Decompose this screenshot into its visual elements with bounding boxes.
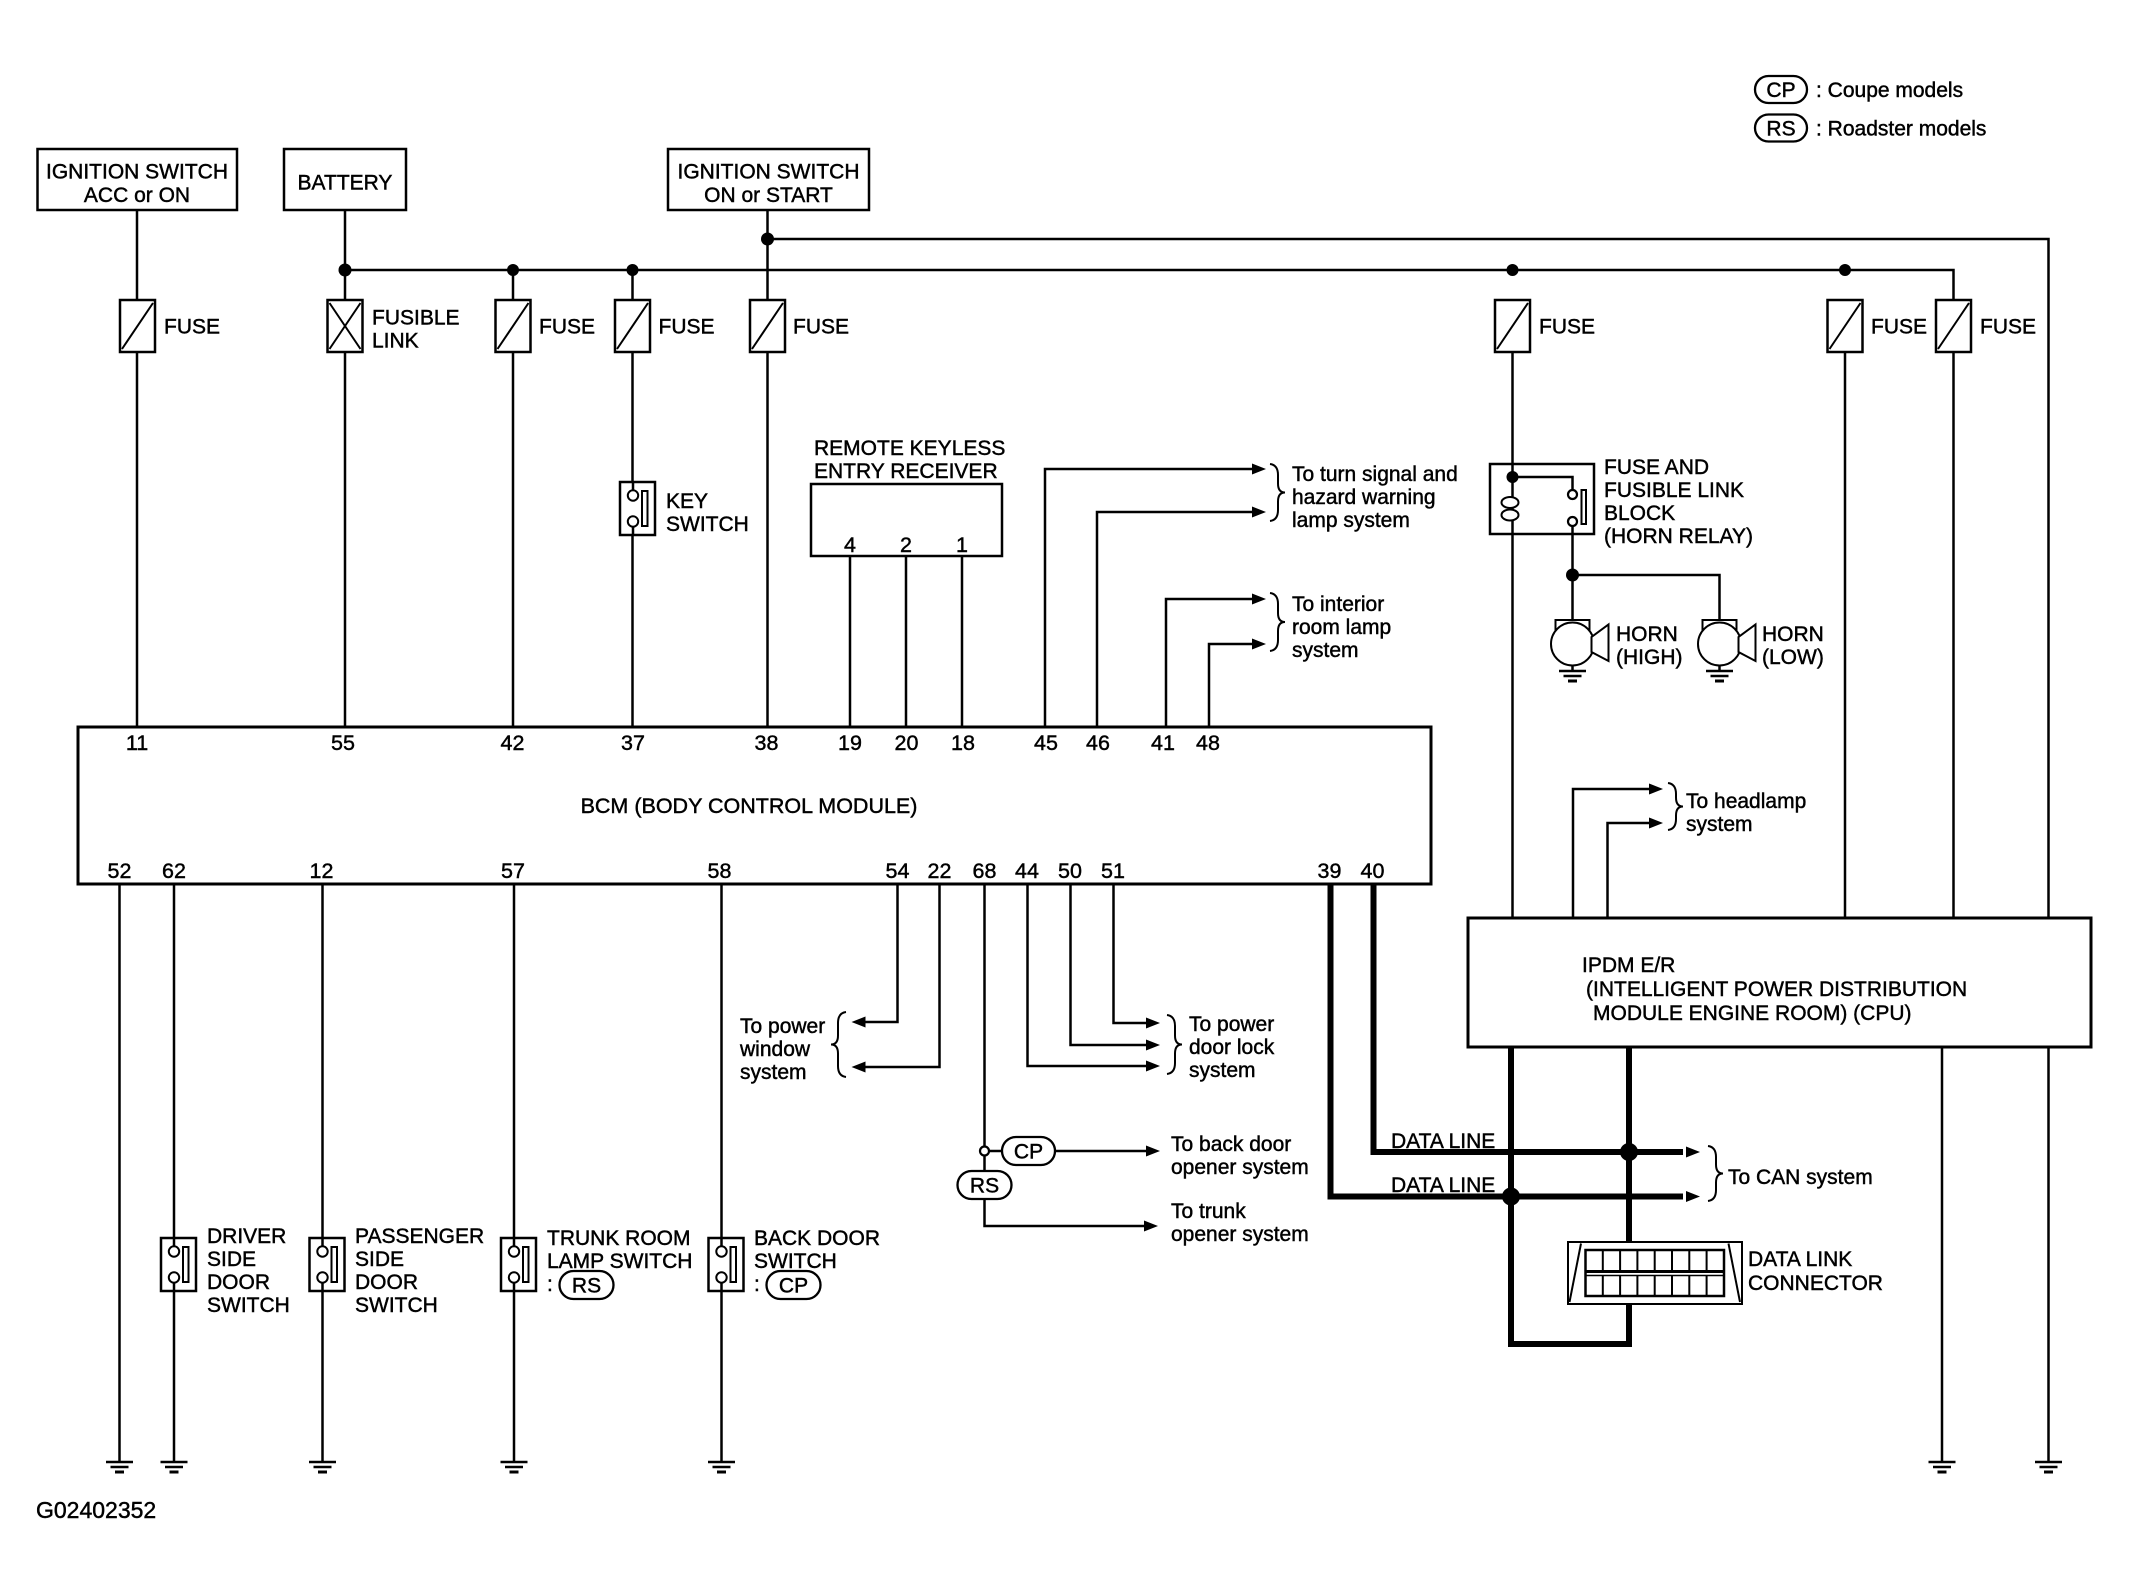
wire: relay jumper to contact [1513, 477, 1573, 490]
svg-text:SIDE: SIDE [207, 1248, 256, 1271]
svg-text:54: 54 [886, 859, 910, 883]
node: data line 2 junction [1502, 1188, 1520, 1206]
box: fuse and fusible link block (horn relay) [1490, 464, 1594, 534]
svg-text:52: 52 [108, 859, 132, 883]
arrow: door lock 2 [1146, 1040, 1160, 1051]
svg-text:BACK DOOR: BACK DOOR [754, 1227, 880, 1250]
driver side door switch [161, 1238, 196, 1291]
svg-text:CONNECTOR: CONNECTOR [1748, 1272, 1883, 1295]
legend CP pill [1755, 76, 1807, 103]
pill CP back door opener [1002, 1137, 1055, 1165]
svg-text:To power: To power [740, 1015, 825, 1038]
svg-text:To headlamp: To headlamp [1686, 790, 1806, 813]
wire: BCM pin 57 to trunk switch [513, 884, 516, 1239]
svg-text:lamp system: lamp system [1292, 509, 1410, 532]
wire: BCM pin 62 to driver switch [173, 884, 176, 1239]
arrow: power window 2 [852, 1062, 866, 1073]
svg-text:CP: CP [779, 1275, 808, 1298]
svg-text:22: 22 [928, 859, 952, 883]
svg-text:RS: RS [970, 1175, 999, 1198]
svg-text:(HIGH): (HIGH) [1616, 646, 1683, 669]
arrow: back door opener [1146, 1146, 1160, 1157]
ground: IPDM 1 [1929, 1461, 1956, 1464]
wire: ON/START bus y=239 [768, 239, 2049, 918]
svg-text:(INTELLIGENT POWER DISTRIBUTIO: (INTELLIGENT POWER DISTRIBUTION [1586, 978, 1967, 1001]
svg-text:37: 37 [621, 731, 645, 755]
svg-text:DRIVER: DRIVER [207, 1225, 286, 1248]
key switch symbol [620, 482, 655, 535]
svg-text:G02402352: G02402352 [36, 1497, 156, 1523]
pill RS trunk switch [560, 1271, 614, 1299]
svg-text:(HORN RELAY): (HORN RELAY) [1604, 525, 1753, 548]
node: bus junction fuse 42 [507, 264, 519, 276]
svg-text:BATTERY: BATTERY [298, 172, 393, 195]
arrow: turn signal 2 [1252, 507, 1266, 518]
node: horn junction [1566, 569, 1579, 582]
wire: circle to CP pill [989, 1150, 1003, 1153]
svg-text:44: 44 [1015, 859, 1039, 883]
wire: pin 68 through RS to trunk arrow [985, 1156, 1145, 1227]
svg-text:39: 39 [1318, 859, 1342, 883]
svg-text:FUSIBLE LINK: FUSIBLE LINK [1604, 479, 1744, 502]
svg-text:SWITCH: SWITCH [355, 1294, 438, 1317]
box: BCM (body control module) [78, 727, 1431, 884]
svg-text:DATA LINK: DATA LINK [1748, 1248, 1852, 1271]
svg-text:To power: To power [1189, 1013, 1274, 1036]
svg-text:68: 68 [973, 859, 997, 883]
svg-text:FUSE: FUSE [1980, 316, 2036, 339]
svg-text:55: 55 [331, 731, 355, 755]
brace: power window group [831, 1012, 846, 1077]
svg-text:To back door: To back door [1171, 1133, 1291, 1156]
wire: BCM pin 39 data line 2 (thick) [1331, 884, 1684, 1197]
svg-text:RS: RS [572, 1275, 601, 1298]
wire: fuse 38 to BCM pin 38 [766, 352, 769, 727]
fuse F1 (ACC) [120, 300, 155, 352]
svg-text:FUSE: FUSE [1871, 316, 1927, 339]
svg-text:FUSE: FUSE [1539, 316, 1595, 339]
arrow: power window 1 [852, 1017, 866, 1028]
box: remote keyless entry receiver [811, 484, 1002, 556]
wire: BCM pin 12 to passenger switch [321, 884, 324, 1239]
relay coil loop 2 [1502, 510, 1519, 521]
fuse F5 (horn relay feed) [1495, 300, 1530, 352]
arrow: door lock 3 [1146, 1061, 1160, 1072]
svg-text:41: 41 [1151, 731, 1175, 755]
svg-text:To CAN system: To CAN system [1728, 1166, 1873, 1189]
svg-text:51: 51 [1101, 859, 1125, 883]
fuse F7 (IPDM feed 2) [1936, 300, 1971, 352]
wire: horn fuse to relay and IPDM [1511, 352, 1514, 918]
svg-text:1: 1 [956, 533, 968, 557]
fuse F6 (IPDM feed 1) [1828, 300, 1863, 352]
wire: back door switch to ground [720, 1291, 723, 1462]
wire: relay contact to horn junction [1571, 526, 1574, 575]
svg-text:: Roadster models: : Roadster models [1816, 118, 1986, 141]
svg-text:18: 18 [951, 731, 975, 755]
wire: fusible link to BCM pin 55 [344, 352, 347, 727]
wire: horn junction to horn low [1573, 575, 1720, 621]
wire: BCM pin 68 down [983, 884, 986, 1147]
arrow: interior lamp 2 [1252, 639, 1266, 650]
svg-text:REMOTE KEYLESS: REMOTE KEYLESS [814, 437, 1005, 460]
svg-text:2: 2 [900, 533, 912, 557]
wire: battery to fusible link [344, 210, 347, 300]
wire: fuse F7 to IPDM [1952, 352, 1955, 918]
wire: fuse F6 to IPDM [1844, 352, 1847, 918]
fuse F2 (pin42) [496, 300, 531, 352]
ground: back door switch [708, 1461, 735, 1464]
fuse F4 (pin38) [750, 300, 785, 352]
svg-text:MODULE ENGINE ROOM) (CPU): MODULE ENGINE ROOM) (CPU) [1593, 1002, 1912, 1025]
svg-text:opener system: opener system [1171, 1156, 1309, 1179]
svg-text:BCM (BODY CONTROL MODULE): BCM (BODY CONTROL MODULE) [581, 794, 918, 818]
arrow: data line 1 [1686, 1147, 1700, 1158]
svg-text:HORN: HORN [1616, 623, 1678, 646]
wire: CP pill to back door arrow [1055, 1150, 1146, 1153]
svg-text:57: 57 [501, 859, 525, 883]
box: IPDM E/R [1468, 918, 2091, 1047]
wire: BCM pin 52 to ground [118, 884, 121, 1462]
relay armature bar [1582, 490, 1587, 524]
svg-text:45: 45 [1034, 731, 1058, 755]
svg-text:BLOCK: BLOCK [1604, 502, 1675, 525]
svg-text:DOOR: DOOR [355, 1271, 418, 1294]
svg-text::: : [754, 1273, 760, 1296]
svg-text:system: system [740, 1061, 807, 1084]
wire: receiver pin 1 to BCM pin 18 [961, 556, 964, 727]
svg-text:40: 40 [1361, 859, 1385, 883]
wire: driver switch to ground [173, 1291, 176, 1462]
svg-text:LAMP SWITCH: LAMP SWITCH [547, 1250, 692, 1273]
wire: fuse 42 to BCM pin 42 [512, 352, 515, 727]
ground: passenger switch [309, 1461, 336, 1464]
ground: pin 52 [106, 1461, 133, 1464]
svg-text:PASSENGER: PASSENGER [355, 1225, 484, 1248]
wire: IPDM CAN U-loop (thick) [1511, 1047, 1629, 1344]
svg-text:FUSE: FUSE [539, 316, 595, 339]
brace: CAN group [1708, 1146, 1723, 1201]
data link connector pins [1586, 1250, 1725, 1296]
wire: IPDM to headlamp arrow 1 [1573, 789, 1650, 918]
wire: battery bus y=270 [345, 270, 1954, 300]
svg-text:SWITCH: SWITCH [666, 513, 749, 536]
svg-text:DATA LINE: DATA LINE [1391, 1130, 1495, 1153]
svg-text:To turn signal and: To turn signal and [1292, 463, 1458, 486]
arrow: turn signal 1 [1252, 464, 1266, 475]
svg-text:To trunk: To trunk [1171, 1200, 1246, 1223]
svg-text:KEY: KEY [666, 490, 708, 513]
svg-text:20: 20 [895, 731, 919, 755]
wire: BCM pin 58 to back door switch [720, 884, 723, 1239]
horn (low) [1703, 620, 1737, 632]
node: battery bus junction [339, 264, 352, 277]
wire: right bus down to ground [2047, 1047, 2050, 1462]
arrow: interior lamp 1 [1252, 594, 1266, 605]
wire: BCM pin 41 to interior lamp arrow [1166, 599, 1253, 727]
svg-text:FUSE: FUSE [659, 316, 715, 339]
box: ignition switch ON or START [668, 149, 869, 210]
relay coil loop 1 [1502, 497, 1519, 508]
svg-text:FUSE: FUSE [164, 316, 220, 339]
node: ON/START bus junction [761, 233, 774, 246]
svg-text:room lamp: room lamp [1292, 616, 1391, 639]
wire: bus to fuse 37 [631, 270, 634, 300]
svg-text:system: system [1686, 813, 1753, 836]
svg-text:12: 12 [310, 859, 334, 883]
wire: receiver pin 4 to BCM pin 19 [849, 556, 852, 727]
wire: relay coil path [1511, 464, 1514, 534]
svg-text:SWITCH: SWITCH [754, 1250, 837, 1273]
svg-text:DOOR: DOOR [207, 1271, 270, 1294]
back door switch [709, 1238, 744, 1291]
svg-text:50: 50 [1058, 859, 1082, 883]
svg-text:system: system [1189, 1059, 1256, 1082]
wire: key switch to BCM pin 37 [631, 534, 634, 727]
wire: horn junction to horn high [1571, 575, 1574, 621]
legend RS pill [1755, 115, 1807, 142]
horn (high) [1556, 620, 1590, 632]
relay contact circle top [1568, 490, 1577, 499]
svg-text:RS: RS [1766, 118, 1795, 141]
wire: ACC box to fuse [136, 210, 139, 300]
wire: BCM pin 46 to turn signal arrow [1097, 512, 1253, 727]
svg-text:FUSE: FUSE [793, 316, 849, 339]
brace: door lock group [1167, 1015, 1182, 1074]
svg-text:19: 19 [838, 731, 862, 755]
svg-text:ON or START: ON or START [704, 184, 833, 207]
wire: BCM pin 22 to power window arrow [865, 884, 940, 1067]
box: battery [284, 149, 406, 210]
node: pin 68 open circle [980, 1147, 989, 1156]
svg-text:LINK: LINK [372, 330, 419, 353]
svg-text:SIDE: SIDE [355, 1248, 404, 1271]
svg-text:window: window [739, 1038, 811, 1061]
svg-text:IPDM E/R: IPDM E/R [1582, 954, 1675, 977]
wire: IPDM to headlamp arrow 2 [1608, 823, 1651, 918]
svg-text:(LOW): (LOW) [1762, 646, 1824, 669]
wire: BCM pin 48 to interior lamp arrow [1209, 644, 1253, 727]
data link connector outline [1568, 1242, 1742, 1304]
node: bus junction fuse 37 [627, 264, 639, 276]
node: data line 1 junction [1620, 1143, 1638, 1161]
svg-text:CP: CP [1014, 1141, 1043, 1164]
svg-text:FUSE AND: FUSE AND [1604, 456, 1709, 479]
svg-text:hazard warning: hazard warning [1292, 486, 1436, 509]
arrow: headlamp 1 [1649, 784, 1663, 795]
relay contact circle bottom [1568, 517, 1577, 526]
box: ignition switch ACC or ON [38, 149, 238, 210]
wire: trunk switch to ground [513, 1291, 516, 1462]
brace: interior lamp group [1270, 593, 1285, 651]
arrow: data line 2 [1686, 1191, 1700, 1202]
pill RS trunk opener [958, 1171, 1012, 1199]
wire: IPDM to ground 1 [1941, 1047, 1944, 1462]
wire: receiver pin 2 to BCM pin 20 [905, 556, 908, 727]
brace: turn signal group [1270, 464, 1285, 521]
arrow: trunk opener [1144, 1221, 1158, 1232]
svg-text:HORN: HORN [1762, 623, 1824, 646]
svg-text:opener system: opener system [1171, 1223, 1309, 1246]
wire: ON/START box down to fuse 38 [766, 210, 769, 300]
wire: passenger switch to ground [321, 1291, 324, 1462]
ground: right bus [2035, 1461, 2062, 1464]
fuse F3 (pin37) [615, 300, 650, 352]
svg-text:ENTRY RECEIVER: ENTRY RECEIVER [814, 460, 998, 483]
svg-text:IGNITION SWITCH: IGNITION SWITCH [678, 161, 860, 184]
svg-text:CP: CP [1766, 79, 1795, 102]
svg-text:58: 58 [708, 859, 732, 883]
wire: BCM pin 40 data line 1 (thick) [1374, 884, 1684, 1152]
fusible link FL [328, 300, 363, 352]
svg-text:door lock: door lock [1189, 1036, 1275, 1059]
node: bus junction right fuse [1839, 264, 1851, 276]
svg-text:48: 48 [1196, 731, 1220, 755]
svg-text:4: 4 [844, 533, 856, 557]
trunk room lamp switch [501, 1238, 536, 1291]
wire: BCM pin 51 to door lock arrow [1114, 884, 1147, 1023]
svg-text:11: 11 [126, 731, 148, 755]
pill CP back door switch [767, 1271, 821, 1299]
svg-text:IGNITION SWITCH: IGNITION SWITCH [46, 161, 228, 184]
node: bus junction horn fuse [1507, 264, 1519, 276]
svg-text:TRUNK ROOM: TRUNK ROOM [547, 1227, 691, 1250]
arrow: door lock 1 [1146, 1018, 1160, 1029]
svg-text:46: 46 [1086, 731, 1110, 755]
ground: driver switch [161, 1461, 188, 1464]
svg-text:38: 38 [755, 731, 779, 755]
wire: fuse 37 to key switch [631, 352, 634, 483]
wire: BCM pin 44 to door lock arrow [1028, 884, 1147, 1066]
svg-text:: Coupe models: : Coupe models [1816, 79, 1963, 102]
wire: BCM pin 54 to power window arrow [865, 884, 898, 1022]
brace: headlamp group [1668, 783, 1683, 830]
svg-text:system: system [1292, 639, 1359, 662]
wire: bus to fuse 42 [512, 270, 515, 300]
wire: fuse 11 to BCM pin 11 [136, 352, 139, 727]
svg-text:ACC or ON: ACC or ON [84, 184, 190, 207]
ground: trunk switch [501, 1461, 528, 1464]
node: relay coil junction [1507, 471, 1519, 483]
svg-text:To interior: To interior [1292, 593, 1384, 616]
wire: BCM pin 45 to turn signal arrow [1045, 469, 1253, 727]
svg-text:62: 62 [162, 859, 186, 883]
svg-text:SWITCH: SWITCH [207, 1294, 290, 1317]
svg-text::: : [547, 1273, 553, 1296]
wire: BCM pin 50 to door lock arrow [1071, 884, 1147, 1045]
passenger side door switch [310, 1238, 345, 1291]
svg-text:DATA LINE: DATA LINE [1391, 1174, 1495, 1197]
svg-text:42: 42 [501, 731, 525, 755]
svg-text:FUSIBLE: FUSIBLE [372, 307, 460, 330]
arrow: headlamp 2 [1649, 818, 1663, 829]
